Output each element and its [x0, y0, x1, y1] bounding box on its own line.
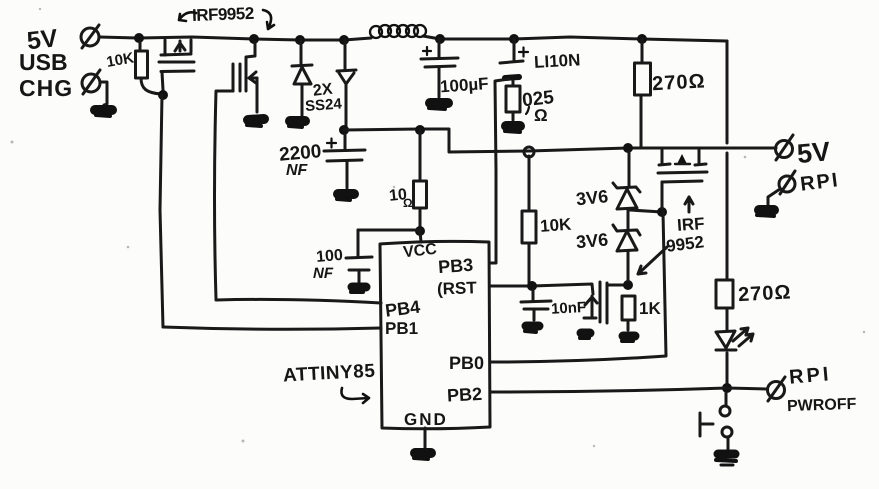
capacitor C3 100NF vcc: [346, 230, 372, 282]
node junction bus 10K2: [524, 147, 534, 157]
capacitor C2 100uF: [421, 39, 458, 97]
wire RST net: [491, 284, 593, 294]
svg-text:PB1: PB1: [385, 319, 418, 338]
svg-text:ATTINY85: ATTINY85: [283, 361, 376, 387]
arrow up to Q3: [685, 197, 693, 212]
resistor R3 10ohm: [414, 125, 427, 228]
svg-text:10K: 10K: [539, 215, 572, 236]
capacitor C4 series bars: [600, 282, 607, 323]
svg-text:Ω: Ω: [534, 106, 548, 125]
battery B1 LIION: [500, 39, 528, 78]
switch S2 pushbutton: [700, 393, 732, 449]
svg-text:Ω: Ω: [403, 196, 413, 210]
wire to J5: [727, 388, 766, 389]
wire PB0 net: [491, 212, 666, 362]
switch S1 reset: [584, 296, 597, 318]
ground under J4: [757, 210, 774, 216]
svg-text:1K: 1K: [639, 299, 661, 318]
transistor Q1 IRF9952: [159, 40, 194, 90]
svg-text:10nF: 10nF: [551, 299, 587, 318]
ground under R7: [505, 126, 520, 132]
IC U1 ATTINY85: [380, 241, 490, 428]
wire battery minus to PB3: [491, 79, 509, 263]
svg-text:SS24: SS24: [305, 95, 343, 115]
label 025 ohm: [521, 87, 555, 125]
zener Z1 3V6: [613, 152, 640, 229]
node junction D2 / C1: [339, 125, 349, 135]
node junction top rail D2: [339, 35, 349, 45]
svg-text:PB0: PB0: [449, 353, 484, 373]
connector J3 5V out: [776, 135, 794, 160]
svg-text:IRF9952: IRF9952: [192, 4, 254, 25]
resistor R6 270ohm: [716, 280, 733, 330]
svg-text:100: 100: [316, 247, 344, 266]
resistor R5 1K: [622, 296, 635, 330]
label 2200 NF: [278, 141, 322, 179]
svg-text:PB4: PB4: [384, 297, 421, 321]
resistor R7 025 ohm shunt: [506, 81, 520, 120]
wire PB4 net: [216, 299, 381, 303]
wire top rail: [99, 36, 727, 41]
inductor L1: [370, 25, 426, 38]
transistor Q2: [217, 42, 257, 112]
node junction top rail D1: [295, 35, 305, 45]
diode D2 SS24: [337, 40, 356, 127]
arrow to Q1: [179, 12, 196, 21]
node junction VCC: [415, 226, 425, 236]
node junction top rail R2: [637, 34, 647, 44]
node junction top rail at 10K: [134, 33, 144, 43]
label IRF 9952: [665, 214, 705, 256]
label 5V USB CHG: [19, 24, 73, 101]
label 10 ohm: [388, 186, 413, 210]
wire node VBAT to bus: [344, 129, 704, 152]
svg-text:RPI: RPI: [799, 169, 841, 196]
arrow to U1: [341, 388, 369, 403]
node junction RST / C5: [527, 281, 537, 291]
wire Q1 gate to PB1: [160, 95, 163, 327]
svg-text:NF: NF: [313, 265, 334, 282]
svg-text:100µF: 100µF: [439, 74, 489, 96]
svg-text:RPI: RPI: [788, 363, 832, 389]
svg-text:PB3: PB3: [437, 255, 473, 277]
ground under U1: [414, 453, 431, 459]
node junction Q1 gate / 10K: [158, 90, 168, 100]
ground under C3: [351, 287, 366, 292]
node junction bus zener: [623, 143, 633, 153]
wire 5V output: [704, 147, 776, 150]
svg-text:USB: USB: [19, 49, 68, 75]
resistor R2 270ohm: [635, 39, 651, 148]
wire Q2 gate to PB4: [215, 91, 217, 299]
arrow to gate node: [638, 247, 667, 274]
svg-text:CHG: CHG: [19, 75, 73, 101]
zener Z2 3V6: [613, 225, 640, 281]
ground under S1: [580, 333, 590, 338]
wire J4 to ground: [768, 189, 780, 206]
capacitor C5 100nF rst: [521, 290, 551, 320]
svg-text:PWROFF: PWROFF: [787, 396, 857, 415]
node junction PWROFF: [722, 383, 732, 393]
svg-text:VCC: VCC: [402, 241, 438, 261]
wire C4 to node: [607, 284, 624, 287]
connector J5 RPI PWROFF: [768, 377, 786, 401]
svg-text:270Ω: 270Ω: [652, 70, 706, 95]
wire right rail: [726, 41, 729, 280]
ground under C5: [525, 326, 539, 332]
node junction top rail battery: [509, 34, 519, 44]
svg-text:10K: 10K: [105, 49, 135, 71]
node junction gate divider: [623, 280, 633, 290]
ground under Q2: [247, 119, 264, 126]
node junction top rail Q2: [249, 34, 259, 44]
connector J1 5V USB input: [81, 25, 99, 48]
svg-text:NF: NF: [286, 162, 309, 179]
ground under D1: [289, 121, 305, 127]
svg-text:9952: 9952: [665, 232, 705, 255]
connector J4 RPI: [779, 171, 795, 194]
connector J2 CHG: [82, 70, 100, 94]
capacitor C1 2200NF: [324, 134, 365, 188]
resistor R4 10K: [522, 156, 536, 283]
svg-text:GND: GND: [404, 410, 448, 429]
svg-text:PB2: PB2: [447, 384, 483, 406]
ground under R5: [622, 336, 635, 341]
svg-text:5V: 5V: [796, 136, 832, 169]
svg-text:3V6: 3V6: [575, 229, 609, 252]
resistor R1 10K: [136, 42, 162, 94]
svg-text:3V6: 3V6: [575, 186, 609, 209]
arrow to Q2: [263, 10, 274, 29]
wire zener tap to Q3 gate: [630, 210, 662, 212]
transistor Q3 IRF9952: [658, 149, 707, 208]
ground under J2: [95, 110, 112, 116]
wire PB2 net: [491, 388, 727, 392]
label RPI PWROFF: [787, 363, 857, 415]
ground under C1: [337, 194, 354, 200]
diode D1 SS24: [292, 40, 312, 116]
ground under S2: [716, 454, 736, 465]
svg-text:LI10N: LI10N: [534, 50, 581, 71]
ground under C2: [429, 103, 448, 109]
label 100 NF: [313, 247, 344, 282]
wire PB1 net: [163, 327, 381, 329]
wire VCC node: [358, 230, 421, 242]
wire J2 to ground: [100, 82, 107, 105]
LED D3: [716, 328, 753, 384]
node junction Q3 gate: [657, 207, 667, 217]
svg-text:270Ω: 270Ω: [738, 281, 792, 306]
svg-text:(RST: (RST: [437, 278, 478, 298]
node junction top rail C2: [435, 34, 445, 44]
wire U1 GND to ground: [424, 428, 427, 448]
